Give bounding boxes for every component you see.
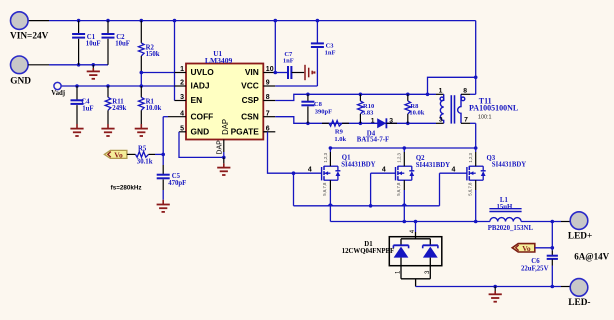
- svg-text:15uH: 15uH: [496, 204, 513, 211]
- svg-text:4: 4: [308, 167, 312, 174]
- svg-text:1,2,3: 1,2,3: [323, 152, 328, 162]
- svg-text:3: 3: [180, 94, 184, 101]
- svg-text:VIN=24V: VIN=24V: [10, 32, 49, 42]
- svg-text:Q1: Q1: [342, 155, 351, 162]
- svg-text:VIN: VIN: [245, 67, 259, 77]
- svg-text:1,2,3: 1,2,3: [468, 152, 473, 162]
- svg-text:Vo: Vo: [522, 244, 531, 253]
- svg-text:R5: R5: [138, 145, 147, 152]
- svg-text:8: 8: [463, 88, 467, 95]
- svg-text:LM3409: LM3409: [205, 56, 233, 65]
- svg-text:2: 2: [180, 80, 184, 87]
- svg-text:EN: EN: [191, 95, 203, 105]
- svg-text:10uF: 10uF: [115, 41, 130, 48]
- svg-text:GND: GND: [191, 126, 210, 136]
- svg-text:SI4431BDY: SI4431BDY: [492, 162, 526, 169]
- svg-text:DAP: DAP: [221, 119, 230, 135]
- svg-text:CSP: CSP: [242, 95, 260, 105]
- svg-text:390pF: 390pF: [315, 108, 332, 115]
- svg-text:10: 10: [266, 66, 274, 73]
- svg-text:DAP: DAP: [216, 140, 223, 155]
- svg-text:10.0k: 10.0k: [146, 105, 162, 112]
- svg-text:4: 4: [382, 167, 386, 174]
- svg-text:UVLO: UVLO: [191, 67, 215, 77]
- svg-text:1: 1: [180, 66, 184, 73]
- svg-text:VCC: VCC: [241, 81, 259, 91]
- svg-text:Vo: Vo: [114, 151, 123, 160]
- svg-text:Q2: Q2: [416, 155, 425, 162]
- svg-text:1: 1: [439, 88, 443, 95]
- svg-text:12CWQ04FNPBF: 12CWQ04FNPBF: [342, 248, 394, 255]
- svg-text:1uF: 1uF: [82, 106, 93, 113]
- svg-text:150k: 150k: [146, 51, 160, 58]
- svg-text:LED+: LED+: [568, 231, 592, 241]
- svg-text:C8: C8: [314, 101, 323, 108]
- svg-text:6A@14V: 6A@14V: [574, 252, 609, 262]
- svg-text:3.83: 3.83: [362, 110, 374, 117]
- svg-text:Vadj: Vadj: [51, 90, 65, 97]
- svg-text:8: 8: [266, 94, 270, 101]
- svg-text:SI4431BDY: SI4431BDY: [341, 162, 375, 169]
- svg-text:1nF: 1nF: [283, 58, 294, 65]
- svg-text:249k: 249k: [112, 105, 126, 112]
- svg-text:1,2,3: 1,2,3: [397, 152, 402, 162]
- svg-text:BAT54-7-F: BAT54-7-F: [357, 137, 389, 144]
- svg-text:5: 5: [180, 125, 184, 132]
- svg-text:4: 4: [451, 167, 455, 174]
- svg-text:SI4431BDY: SI4431BDY: [416, 162, 450, 169]
- svg-text:PB2020_153NL: PB2020_153NL: [488, 225, 534, 232]
- svg-text:5,6,7,8: 5,6,7,8: [467, 182, 472, 196]
- svg-text:CSN: CSN: [241, 111, 259, 121]
- svg-text:COFF: COFF: [191, 111, 214, 121]
- svg-text:7: 7: [266, 110, 270, 117]
- svg-text:1nF: 1nF: [325, 49, 336, 56]
- svg-text:22uF,25V: 22uF,25V: [521, 266, 549, 273]
- svg-text:GND: GND: [10, 76, 31, 86]
- svg-text:PGATE: PGATE: [231, 126, 260, 136]
- svg-text:C3: C3: [326, 42, 335, 49]
- svg-text:3: 3: [389, 118, 393, 125]
- svg-text:IADJ: IADJ: [191, 81, 210, 91]
- svg-text:PA1005100NL: PA1005100NL: [469, 104, 518, 113]
- svg-text:100:1: 100:1: [478, 115, 492, 121]
- svg-text:3: 3: [439, 116, 443, 123]
- svg-text:fs=280kHz: fs=280kHz: [111, 185, 142, 192]
- svg-text:470pF: 470pF: [168, 180, 186, 187]
- svg-text:7: 7: [464, 116, 468, 123]
- svg-text:1.0k: 1.0k: [334, 136, 346, 143]
- svg-text:C5: C5: [172, 173, 181, 180]
- svg-text:5,6,7,8: 5,6,7,8: [396, 182, 401, 196]
- svg-text:C6: C6: [531, 258, 540, 265]
- svg-text:5,6,7,8: 5,6,7,8: [322, 182, 327, 196]
- svg-text:10.0k: 10.0k: [409, 110, 424, 117]
- svg-text:9: 9: [266, 80, 270, 87]
- svg-text:LED-: LED-: [568, 298, 590, 308]
- svg-text:30.1k: 30.1k: [137, 158, 153, 165]
- svg-text:1: 1: [371, 118, 375, 125]
- svg-text:R9: R9: [335, 129, 344, 136]
- svg-text:4: 4: [180, 110, 184, 117]
- svg-text:10uF: 10uF: [86, 41, 101, 48]
